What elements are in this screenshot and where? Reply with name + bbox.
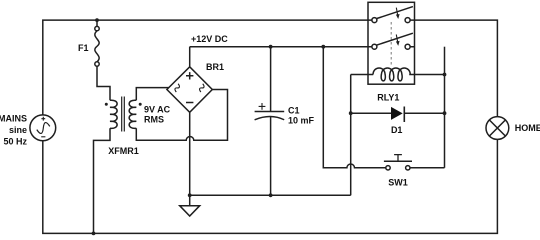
svg-text:+12V DC: +12V DC bbox=[191, 34, 228, 44]
svg-text:9V AC: 9V AC bbox=[144, 104, 171, 114]
svg-text:C1: C1 bbox=[288, 106, 300, 116]
svg-text:MAINS: MAINS bbox=[0, 114, 27, 124]
svg-text:RLY1: RLY1 bbox=[377, 92, 399, 102]
svg-text:RMS: RMS bbox=[144, 115, 164, 125]
svg-text:10 mF: 10 mF bbox=[288, 116, 315, 126]
svg-text:SW1: SW1 bbox=[388, 178, 408, 188]
svg-text:sine: sine bbox=[9, 125, 27, 135]
svg-text:D1: D1 bbox=[391, 125, 403, 135]
svg-text:HOME: HOME bbox=[515, 123, 540, 133]
svg-text:XFMR1: XFMR1 bbox=[108, 146, 139, 156]
svg-text:F1: F1 bbox=[78, 43, 89, 53]
svg-text:BR1: BR1 bbox=[206, 62, 224, 72]
svg-text:50 Hz: 50 Hz bbox=[3, 136, 27, 146]
